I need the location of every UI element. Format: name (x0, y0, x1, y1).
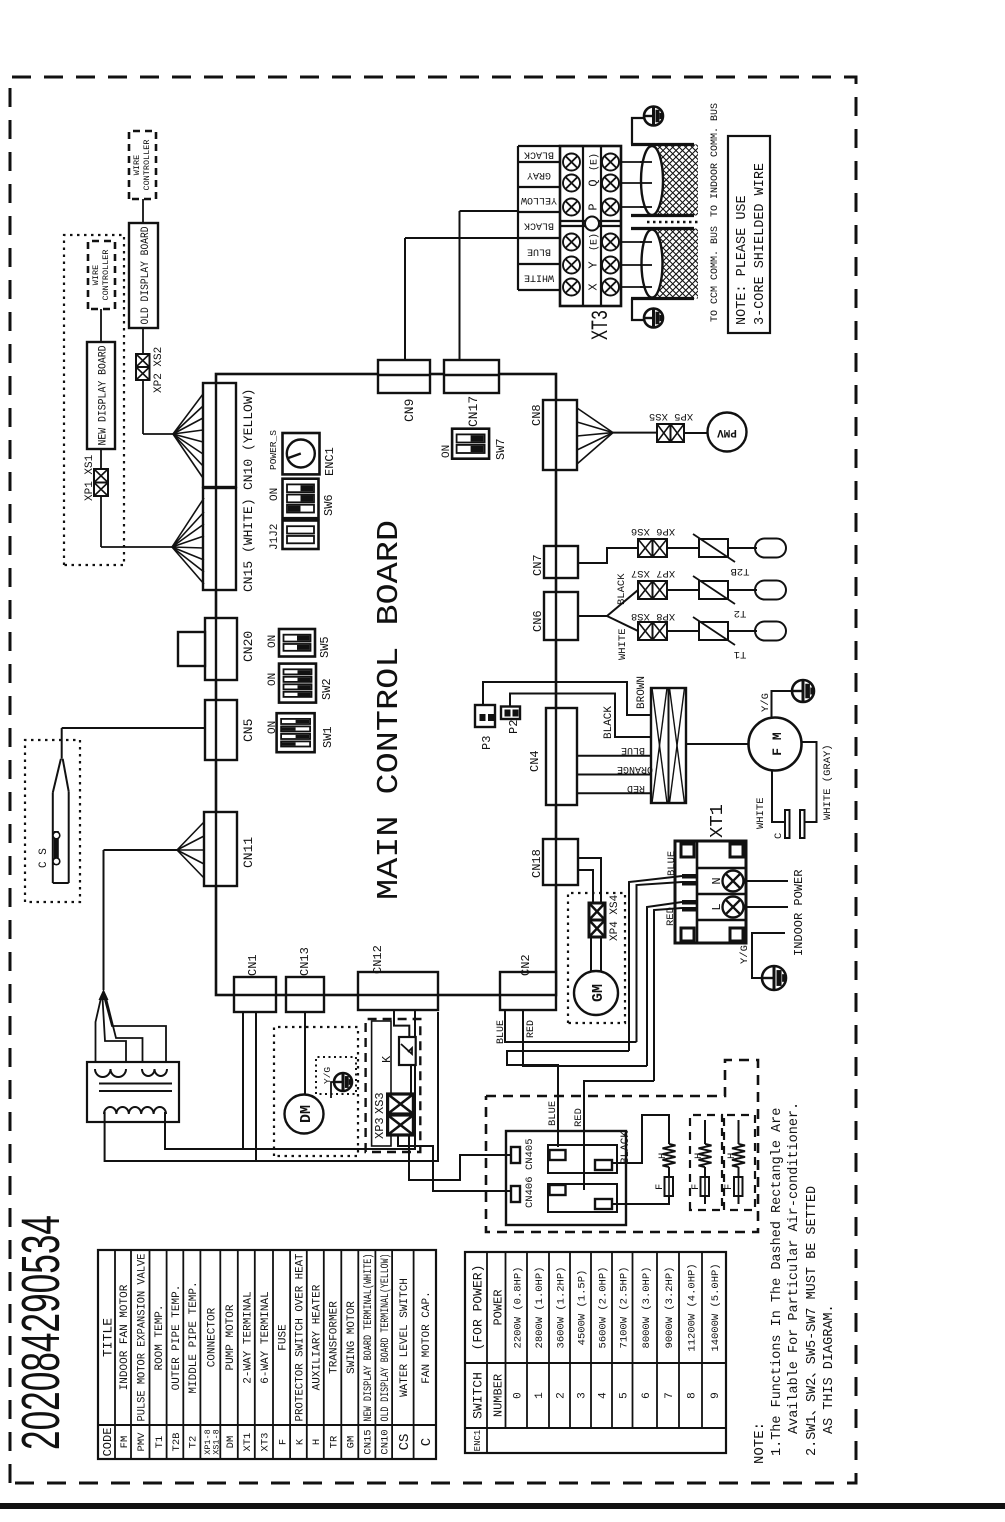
wire relay1 to H1 (613, 1115, 669, 1163)
svg-text:3: 3 (577, 1392, 589, 1399)
XT1 mid band (696, 841, 699, 943)
wire F1 to relay2 (613, 1196, 669, 1204)
wire P2 BLACK (510, 694, 651, 738)
svg-text:BLUE: BLUE (621, 744, 645, 755)
connector CN20 (205, 618, 237, 680)
dotted box DM (274, 1027, 358, 1156)
svg-text:YELLOW: YELLOW (521, 194, 557, 205)
svg-text:WHITE (GRAY): WHITE (GRAY) (822, 744, 834, 820)
svg-text:FM: FM (119, 1436, 131, 1449)
XT3 label cells (517, 146, 519, 290)
svg-text:GRAY: GRAY (527, 169, 551, 180)
svg-text:8: 8 (687, 1392, 699, 1399)
wire CN9 to XT3 (404, 238, 406, 360)
wire BLUE to relay1 (507, 1051, 629, 1147)
svg-text:C: C (419, 1438, 435, 1446)
thermistor T2B (699, 539, 728, 557)
wire CN12 to K (394, 1010, 409, 1037)
svg-text:1.The Functions In The Dashed: 1.The Functions In The Dashed Rectangle … (770, 1108, 785, 1456)
svg-text:202084290534: 202084290534 (11, 1215, 71, 1450)
connector XP5 XS5 (657, 424, 671, 442)
svg-text:(FOR POWER): (FOR POWER) (471, 1265, 486, 1351)
crossover box (651, 688, 686, 803)
heater H3 chain (738, 1120, 740, 1144)
connector CN6 (544, 592, 578, 640)
svg-text:POWER_S: POWER_S (268, 430, 279, 470)
svg-text:WATER LEVEL SWITCH: WATER LEVEL SWITCH (399, 1278, 411, 1397)
svg-text:4500W (1.5P): 4500W (1.5P) (577, 1270, 589, 1346)
wire T2 bulb (728, 589, 757, 591)
svg-text:PULSE MOTOR EXPANSION VALVE: PULSE MOTOR EXPANSION VALVE (136, 1253, 148, 1421)
capacitor C plate2 (800, 810, 805, 838)
connector CN13 (286, 977, 324, 1012)
XT3 cable wires g1 (621, 286, 651, 288)
switch table col lines (465, 1427, 726, 1429)
wire FM YG (772, 691, 793, 718)
page edge bar (0, 1503, 1005, 1509)
svg-text:XP2 XS2: XP2 XS2 (153, 347, 165, 393)
wire CN2 pin1 BLUE (505, 1010, 637, 1042)
relay 2 pad a (550, 1185, 566, 1195)
svg-text:F M: F M (770, 732, 785, 756)
svg-text:2-WAY TERMINAL: 2-WAY TERMINAL (242, 1291, 254, 1383)
dotted cable separator (647, 221, 700, 224)
svg-text:6-WAY TERMINAL: 6-WAY TERMINAL (260, 1291, 272, 1383)
dotted box GM (568, 893, 625, 1023)
svg-text:CONNECTOR: CONNECTOR (206, 1307, 218, 1367)
svg-text:P: P (587, 203, 601, 210)
svg-text:14000W (5.0HP): 14000W (5.0HP) (710, 1263, 722, 1351)
pump motor DM circle (285, 1095, 324, 1134)
wire XP4 to GM b (600, 937, 602, 971)
svg-text:Y/G: Y/G (322, 1067, 333, 1084)
dashed box K XP3 (366, 1019, 421, 1152)
connector CN10 (203, 383, 236, 487)
svg-text:NOTE: PLEASE USE: NOTE: PLEASE USE (735, 195, 750, 325)
svg-text:OUTER PIPE TEMP.: OUTER PIPE TEMP. (171, 1285, 183, 1391)
ground XT3 left (644, 309, 663, 328)
ground indoor (762, 966, 786, 990)
svg-text:SW2: SW2 (320, 678, 334, 700)
wire XP5 to PMV (684, 432, 708, 434)
relay 2 rect (548, 1184, 617, 1212)
code table header divider (98, 1424, 436, 1426)
XT3 screws top row (563, 279, 580, 296)
wire CN13 to DM (304, 1012, 306, 1095)
svg-text:BLACK: BLACK (616, 573, 628, 605)
XT3 center hole (585, 217, 599, 231)
svg-text:PMV: PMV (717, 426, 737, 438)
connector XP6 XS6 (638, 539, 653, 557)
svg-text:H: H (726, 1153, 738, 1159)
sensor bulb T2 (755, 581, 786, 600)
svg-text:T2: T2 (188, 1436, 200, 1449)
svg-text:CN1: CN1 (246, 954, 260, 976)
svg-text:2200W (0.8HP): 2200W (0.8HP) (512, 1267, 524, 1349)
wire XP8 to T1 (667, 630, 699, 632)
svg-text:FUSE: FUSE (278, 1324, 290, 1351)
XT1 corner pad 4 (730, 844, 743, 857)
code table outer (98, 1250, 436, 1459)
svg-text:P2: P2 (507, 720, 521, 734)
encoder ENC1 (283, 433, 320, 474)
XT1 corner pad 3 (730, 928, 743, 941)
svg-text:K: K (380, 1055, 394, 1063)
svg-text:ON: ON (267, 721, 279, 734)
dotted group box (64, 235, 124, 565)
svg-text:ON: ON (267, 635, 279, 648)
svg-text:Y: Y (587, 261, 601, 268)
svg-text:CN17: CN17 (466, 396, 481, 427)
svg-text:XP6 XS6: XP6 XS6 (631, 525, 675, 537)
XT1 corner pad 1 (681, 928, 694, 941)
connector CN405 bar (511, 1147, 520, 1163)
cable end ellipse left (642, 230, 663, 298)
dashed box H2 (690, 1115, 722, 1210)
svg-text:XP3: XP3 (373, 1117, 387, 1139)
svg-text:8000W (3.0HP): 8000W (3.0HP) (641, 1267, 653, 1349)
svg-text:CN11: CN11 (241, 837, 256, 868)
svg-text:MAIN CONTROL BOARD: MAIN CONTROL BOARD (372, 520, 407, 900)
wire cap to FM right (802, 742, 817, 822)
ground XT3 right (644, 107, 663, 126)
svg-text:CN406: CN406 (524, 1176, 536, 1208)
thermistor T2 (699, 581, 728, 599)
main control board outline (216, 374, 556, 995)
wire P3 BROWN (483, 682, 651, 715)
svg-text:NEW DISPLAY BOARD: NEW DISPLAY BOARD (98, 345, 110, 445)
wire XT1 L out (746, 906, 788, 908)
wire CN4 RED (577, 792, 651, 794)
svg-text:T1: T1 (734, 648, 747, 660)
svg-text:BLACK: BLACK (524, 220, 554, 231)
wire K to XS3 (410, 1065, 412, 1094)
connector CN8 (543, 400, 577, 470)
svg-text:2800W (1.0HP): 2800W (1.0HP) (534, 1267, 546, 1349)
svg-text:AS THIS DIAGRAM.: AS THIS DIAGRAM. (822, 1304, 837, 1434)
svg-text:CONTROLLER: CONTROLLER (142, 139, 152, 190)
svg-text:NUMBER: NUMBER (492, 1374, 506, 1417)
protector switch K (399, 1037, 416, 1065)
svg-text:CN10 (YELLOW): CN10 (YELLOW) (241, 389, 256, 490)
cable shield hatch left (652, 229, 698, 299)
svg-text:7: 7 (664, 1392, 676, 1399)
fanout CN8 (577, 433, 613, 464)
svg-text:BLACK: BLACK (620, 1131, 632, 1164)
svg-text:CN15 (WHITE): CN15 (WHITE) (241, 498, 256, 592)
svg-text:C: C (773, 833, 785, 839)
svg-text:SW7: SW7 (494, 438, 508, 460)
svg-text:ROOM TEMP.: ROOM TEMP. (154, 1304, 166, 1370)
wire T2B bulb (728, 547, 757, 549)
relay 1 pad b (595, 1160, 612, 1170)
XT3 cable wire tips over ellipses (640, 286, 652, 288)
dashed box WIRE CONTROLLER 1 (88, 241, 115, 309)
svg-text:H: H (311, 1439, 323, 1445)
wire feed A (629, 876, 682, 1051)
dip switch SW7 (452, 429, 489, 459)
svg-text:CN18: CN18 (530, 849, 544, 878)
svg-text:RED: RED (627, 782, 645, 793)
wire XP1 to CN15 fan (100, 496, 102, 547)
sensor bulb T1 (755, 622, 786, 641)
wire XP1 to NEW (100, 449, 102, 469)
svg-text:WHITE: WHITE (755, 797, 767, 829)
svg-text:9000W (3.2HP): 9000W (3.2HP) (664, 1267, 676, 1349)
svg-text:XP8 XS8: XP8 XS8 (631, 610, 675, 622)
wire CN1 tee A (242, 1012, 244, 1149)
svg-text:T1: T1 (154, 1436, 166, 1449)
svg-text:T2B: T2B (731, 565, 750, 577)
TR secondary winding (104, 1107, 166, 1114)
svg-text:RED: RED (573, 1108, 585, 1127)
connector CN18 (543, 839, 578, 885)
wire TR to CN11 (103, 850, 105, 990)
XT1 corner pad 2 (681, 844, 694, 857)
svg-text:XS1-8: XS1-8 (211, 1429, 221, 1455)
connector CN2 (500, 972, 556, 1010)
svg-text:CS: CS (397, 1434, 413, 1451)
svg-text:WHITE: WHITE (617, 628, 629, 660)
svg-text:MIDDLE PIPE TEMP.: MIDDLE PIPE TEMP. (188, 1281, 200, 1393)
svg-text:XP5 XS5: XP5 XS5 (649, 410, 693, 422)
svg-text:DM: DM (225, 1436, 237, 1449)
svg-text:CN9: CN9 (402, 399, 417, 422)
box OLD DISPLAY BOARD (129, 223, 158, 328)
svg-text:11200W (4.0HP): 11200W (4.0HP) (687, 1263, 699, 1351)
svg-text:OLD DISPLAY BOARD TERMINAL(YEL: OLD DISPLAY BOARD TERMINAL(YELLOW) (380, 1254, 392, 1422)
svg-text:3-CORE SHIELDED WIRE: 3-CORE SHIELDED WIRE (753, 163, 768, 325)
svg-text:P3: P3 (480, 736, 494, 750)
wire XP3 to CN405 (409, 1135, 512, 1180)
XT3 group gap (560, 225, 621, 227)
wire CN18 pin2 (578, 870, 593, 903)
svg-text:9: 9 (710, 1392, 722, 1399)
wire XP2 to CN10 fan (142, 380, 144, 434)
svg-text:T2: T2 (734, 607, 747, 619)
cable borders (631, 297, 694, 300)
wire CN1 tee B (255, 1012, 257, 1161)
connector P2 (501, 707, 520, 720)
svg-text:GM: GM (346, 1436, 358, 1449)
connector CN12 (358, 972, 438, 1010)
wire feed C (647, 902, 682, 1066)
svg-text:INDOOR FAN MOTOR: INDOOR FAN MOTOR (119, 1284, 131, 1390)
heater H1 zigzag (663, 1144, 676, 1167)
svg-text:WIRE: WIRE (132, 155, 142, 175)
svg-text:Available For Particular Air-c: Available For Particular Air-conditioner… (787, 1102, 802, 1434)
svg-text:XT1: XT1 (242, 1433, 254, 1452)
wire CN17 to XT3 (459, 211, 461, 360)
svg-text:TO CCM COMM. BUS: TO CCM COMM. BUS (710, 226, 721, 322)
wire CN2 pin2 RED (523, 1010, 647, 1066)
svg-text:CODE: CODE (101, 1428, 115, 1457)
svg-text:XS3: XS3 (373, 1092, 387, 1114)
connector CN11 (204, 812, 237, 886)
fanout CN15 (172, 547, 204, 584)
thermistor T1 (699, 622, 728, 640)
svg-text:NOTE:: NOTE: (752, 1422, 768, 1464)
svg-text:GM: GM (590, 984, 607, 1002)
heater H2 chain (704, 1120, 706, 1144)
svg-text:DM: DM (298, 1105, 315, 1123)
wire ground right (632, 118, 644, 145)
dip switch SW2 (279, 664, 316, 703)
connector CN406 bar (511, 1186, 520, 1202)
svg-text:XT3: XT3 (260, 1433, 272, 1452)
fuse F1 (665, 1177, 674, 1196)
wire ground left (632, 299, 644, 321)
svg-text:1: 1 (534, 1392, 546, 1399)
svg-text:XP7 XS7: XP7 XS7 (631, 567, 675, 579)
CS reed bar (54, 831, 59, 865)
svg-text:BROWN: BROWN (636, 676, 648, 709)
switch table outer (465, 1252, 726, 1453)
terminal XT1 outer (675, 841, 746, 943)
dip jumpers J1 J2 (283, 521, 319, 550)
svg-text:OLD DISPLAY BOARD: OLD DISPLAY BOARD (140, 226, 152, 324)
svg-text:X: X (587, 283, 601, 290)
wire RED to relay2 (584, 1081, 654, 1190)
dashed border (10, 77, 856, 1483)
connector XP4 XS4 (589, 903, 605, 920)
relay box CN405 CN406 (506, 1131, 626, 1225)
svg-text:F: F (723, 1184, 735, 1190)
svg-text:PMV: PMV (136, 1432, 148, 1452)
connector CN4 (546, 708, 577, 805)
svg-text:Q: Q (587, 179, 601, 186)
svg-text:RED: RED (526, 1020, 537, 1038)
dip switch SW6 (283, 479, 319, 519)
connector CN9 (378, 360, 430, 393)
svg-text:BLUE: BLUE (527, 246, 551, 257)
svg-text:BLACK: BLACK (603, 706, 615, 739)
box NEW DISPLAY BOARD (87, 342, 115, 449)
fanout CN10 (173, 434, 203, 478)
dashed box WIRE CONTROLLER 2 (129, 131, 156, 199)
svg-text:CN2: CN2 (519, 954, 533, 976)
svg-text:C S: C S (38, 848, 50, 868)
XT3 cable wires g2 (621, 206, 651, 208)
relay 1 rect (548, 1145, 617, 1173)
ground FM (792, 680, 814, 702)
svg-text:F: F (690, 1184, 702, 1190)
connector XP7 XS7 (638, 581, 653, 599)
svg-text:BLUE: BLUE (496, 1020, 507, 1044)
wire CN7 to XP6 (578, 548, 638, 563)
svg-text:SW6: SW6 (322, 494, 336, 516)
wire T1 bulb (728, 630, 757, 632)
dashed box CS (25, 740, 80, 902)
wire FM to cap (772, 770, 785, 822)
dashed heater region (486, 1060, 758, 1232)
svg-text:XT3: XT3 (588, 310, 614, 340)
fan motor FM circle (749, 718, 802, 771)
svg-text:F: F (654, 1184, 666, 1190)
svg-text:CN15: CN15 (363, 1429, 375, 1454)
wire CS to CN5 (61, 728, 63, 759)
svg-text:BLACK: BLACK (524, 149, 554, 160)
cable end ellipse right (641, 146, 663, 215)
svg-text:ON: ON (267, 673, 279, 686)
sensor bulb T2B (755, 539, 786, 558)
fanout CN11 (177, 850, 204, 878)
TR primary leads (96, 998, 102, 1063)
svg-text:ON: ON (269, 488, 281, 501)
svg-text:NEW DISPLAY BOARD TERMINAL(WHI: NEW DISPLAY BOARD TERMINAL(WHITE) (363, 1254, 375, 1422)
wire H1 to F1 (668, 1167, 670, 1177)
connector CN17 (444, 360, 499, 393)
relay 2 pad b (595, 1199, 612, 1209)
TR secondary lead A (105, 1012, 438, 1161)
svg-text:CN12: CN12 (371, 945, 385, 974)
svg-text:4: 4 (598, 1392, 610, 1399)
connector CN7 (544, 546, 578, 578)
svg-text:SWING MOTOR: SWING MOTOR (346, 1301, 358, 1374)
connector CN15 (203, 488, 236, 590)
svg-text:5600W (2.0HP): 5600W (2.0HP) (598, 1267, 610, 1349)
svg-text:AUXILIARY HEATER: AUXILIARY HEATER (311, 1284, 323, 1390)
TR arrow (99, 989, 109, 1000)
motor PMV circle (708, 413, 747, 452)
svg-text:XP4 XS4: XP4 XS4 (609, 894, 621, 941)
svg-text:T2B: T2B (171, 1433, 183, 1452)
wire DM to ground (331, 1082, 334, 1098)
svg-text:CN8: CN8 (530, 404, 544, 426)
svg-text:CN10: CN10 (380, 1429, 392, 1454)
svg-text:F: F (277, 1439, 289, 1445)
svg-text:5: 5 (618, 1392, 630, 1399)
svg-text:SWITCH: SWITCH (471, 1372, 486, 1419)
svg-text:2.SW1、SW2、SW5-SW7 MUST BE SETT: 2.SW1、SW2、SW5-SW7 MUST BE SETTED (805, 1186, 820, 1456)
svg-text:CN5: CN5 (241, 719, 256, 742)
svg-text:H: H (657, 1153, 669, 1159)
XT1 clamp N (682, 881, 697, 886)
terminal XT3 outer (560, 146, 621, 306)
connector XP3 XS3 (388, 1094, 414, 1114)
wire XT1 N out (746, 880, 788, 882)
svg-text:WIRE: WIRE (91, 265, 101, 285)
TR secondary lead B (165, 1010, 415, 1149)
svg-text:0: 0 (512, 1392, 524, 1399)
svg-text:CONTROLLER: CONTROLLER (101, 249, 111, 300)
XT1 screw N (723, 871, 744, 892)
connector XP2 XS2 (136, 367, 150, 380)
TR core lines (99, 1090, 172, 1092)
svg-text:Y/G: Y/G (760, 693, 772, 712)
svg-text:CN405: CN405 (524, 1138, 536, 1170)
svg-text:CN20: CN20 (241, 631, 256, 662)
svg-text:SW1: SW1 (321, 726, 335, 748)
svg-text:TR: TR (328, 1435, 340, 1448)
connector XP8 XS8 (638, 622, 653, 640)
svg-text:ENC1: ENC1 (473, 1430, 483, 1452)
relay 1 pad a (550, 1150, 566, 1160)
svg-text:PROTECTOR SWITCH OVER HEAT: PROTECTOR SWITCH OVER HEAT (294, 1253, 306, 1421)
wire CN8 to XP5 (613, 432, 657, 434)
water level switch CS body (52, 793, 54, 883)
wire CN6 fork (578, 615, 607, 617)
XT1 screw L (723, 897, 744, 918)
dotted box DM ground (316, 1057, 356, 1094)
svg-text:(E): (E) (589, 233, 601, 251)
svg-text:ON: ON (441, 445, 453, 458)
XT3 row lines (582, 146, 584, 306)
transformer TR body (87, 1062, 179, 1122)
svg-text:TRANSFORMER: TRANSFORMER (329, 1301, 341, 1374)
wire NEW to controller (100, 309, 102, 342)
TR primary winding g2 (142, 1069, 167, 1076)
